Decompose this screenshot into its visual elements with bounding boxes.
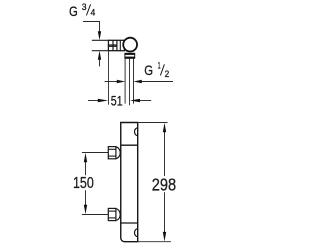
svg-text:298: 298 bbox=[152, 174, 176, 194]
svg-text:51: 51 bbox=[111, 92, 123, 108]
dimension text 51 bbox=[111, 92, 123, 108]
G 1/2 left arrow bbox=[117, 80, 125, 83]
svg-text:G: G bbox=[69, 4, 78, 19]
leader line from G 3/4 bbox=[83, 22, 100, 32]
lower inlet nut bbox=[108, 208, 116, 220]
150 dimension up arrow bbox=[84, 153, 87, 163]
shower pipe left edge bbox=[124, 58, 126, 103]
label G 1/2 bbox=[144, 61, 169, 80]
svg-text:3: 3 bbox=[82, 2, 87, 12]
298 dimension line upper bbox=[164, 132, 166, 176]
temperature handle parting line bbox=[121, 144, 138, 146]
hose nut under circle bbox=[125, 53, 135, 58]
298 dimension up arrow bbox=[163, 123, 166, 133]
upper inlet dome bbox=[116, 147, 120, 159]
G 1/2 right pointer line bbox=[142, 81, 173, 83]
298 bottom extension line bbox=[138, 241, 171, 243]
arrow down to fitting top bbox=[98, 31, 101, 40]
safety button arc on temperature handle bbox=[134, 128, 137, 136]
shower pipe centre line bbox=[129, 58, 131, 105]
svg-text:G: G bbox=[144, 63, 153, 78]
150 dimension line lower bbox=[85, 190, 87, 205]
298 dimension line lower bbox=[164, 192, 166, 232]
flow handle parting line bbox=[121, 222, 138, 224]
dimension text 298 bbox=[152, 174, 176, 194]
51 dimension left tail bbox=[88, 100, 98, 102]
dimension text 150 bbox=[73, 175, 94, 192]
upper inlet extension line bbox=[82, 152, 108, 154]
tail of up arrow bbox=[99, 60, 101, 67]
G 1/2 right arrow bbox=[134, 80, 142, 83]
svg-text:150: 150 bbox=[73, 175, 94, 192]
valve body circle (side view) bbox=[123, 38, 137, 52]
svg-text:2: 2 bbox=[165, 69, 170, 79]
150 dimension line upper bbox=[85, 162, 87, 175]
51 dimension right tail bbox=[140, 100, 152, 102]
extension of fitting bottom edge bbox=[92, 50, 109, 52]
button arc on flow handle bbox=[135, 229, 138, 237]
upper inlet nut bbox=[108, 147, 116, 159]
lower inlet dome bbox=[116, 209, 120, 221]
union fitting body (side view) bbox=[108, 40, 124, 50]
arrow up to fitting bottom bbox=[98, 51, 101, 60]
label G 3/4 bbox=[69, 2, 95, 19]
150 dimension down arrow bbox=[84, 205, 87, 215]
298 top extension line bbox=[138, 122, 168, 124]
G 1/2 left pointer line bbox=[105, 81, 118, 83]
extension of fitting top edge bbox=[92, 39, 109, 41]
extension line wall plane for 51 bbox=[108, 51, 110, 105]
51 dimension left arrow bbox=[98, 99, 108, 102]
shower pipe right edge bbox=[133, 58, 135, 103]
mixer bar outline (front view) bbox=[121, 123, 138, 242]
svg-text:1: 1 bbox=[158, 61, 161, 71]
lower inlet extension line bbox=[82, 214, 108, 216]
298 dimension down arrow bbox=[163, 232, 166, 242]
51 dimension right arrow bbox=[130, 99, 140, 102]
svg-text:4: 4 bbox=[91, 7, 96, 17]
